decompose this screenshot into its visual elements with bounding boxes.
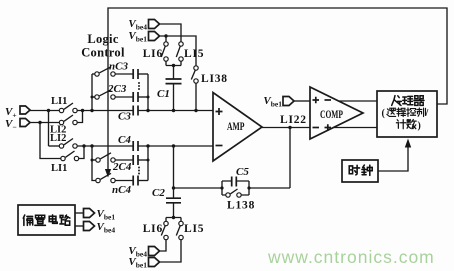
svg-text:L138: L138 (227, 200, 255, 212)
clock box (342, 160, 378, 182)
comparator COMP (310, 87, 363, 139)
wire nC3 row left (92, 73, 95, 75)
switch LI5 bottom (179, 221, 183, 225)
svg-text:C4: C4 (118, 134, 131, 146)
wire nC4 right (138, 180, 148, 182)
text bias box 电 (49, 215, 57, 223)
svg-text:LI5: LI5 (184, 223, 204, 235)
text processor 控 (407, 108, 416, 117)
text bias box 偏 (23, 215, 32, 225)
plus sign COMP bottom (325, 124, 332, 130)
bias circuit box (18, 205, 75, 235)
node C5 left (220, 186, 223, 189)
port V+ (20, 106, 30, 114)
wire LI6 LI5 join bar (166, 61, 181, 79)
wire LI1 bottom up to bus (79, 146, 84, 159)
svg-text:C3: C3 (118, 111, 131, 123)
switch LI5 top (179, 42, 183, 46)
wire 2C3 to cap (115, 96, 133, 98)
svg-text:2C3: 2C3 (107, 83, 127, 95)
wire V+ down to LI2 row (48, 111, 50, 147)
port Vbe4 bottom (149, 247, 160, 256)
text processor 制 (417, 108, 426, 117)
wire feedback left (174, 187, 291, 189)
wire feedback down (289, 128, 291, 189)
switch 2C4 (96, 158, 100, 162)
node bus 2C3 (91, 96, 94, 99)
node top bus (81, 109, 84, 112)
text processor 数 (407, 119, 416, 128)
plus sign COMP top (313, 97, 320, 103)
node V+ split (47, 109, 50, 112)
svg-text:LI22: LI22 (280, 114, 307, 126)
node bus right 2C4 (147, 159, 150, 162)
node C1 top (172, 64, 175, 67)
svg-text:LI2: LI2 (50, 133, 66, 144)
wire Vbe1 to LI38 (166, 36, 196, 66)
wire C4 bank left bus (92, 146, 96, 181)
port Vbe1 bias (84, 209, 95, 218)
switch LI38 (194, 66, 198, 70)
node C3 bank tap (90, 109, 93, 112)
wire C3 bank left bus (91, 74, 93, 111)
svg-text:C2: C2 (152, 187, 165, 199)
node LI22 (288, 126, 291, 129)
wire C1 to main (173, 84, 175, 111)
switch LI2 top (59, 120, 63, 124)
text clock 时 (349, 165, 359, 175)
wire C4 to AMP- (138, 145, 213, 147)
wire V+ to LI1 (30, 110, 59, 112)
wire COMP out bottom (334, 127, 378, 129)
svg-text:/: / (425, 108, 429, 119)
wire clock to processor (378, 146, 408, 171)
wire V- down to LI1 bottom row (40, 123, 61, 159)
node bus right 2C3 (147, 96, 150, 99)
switch 2C3 (95, 95, 99, 99)
svg-text:LI1: LI1 (51, 163, 67, 174)
node V- split (38, 121, 41, 124)
wire LI6 to Vbe4 (160, 240, 167, 251)
wire bias to Vbe4 (75, 225, 84, 227)
switch LI6 top (164, 42, 168, 46)
svg-text:C1: C1 (157, 88, 170, 100)
wire bias to Vbe1 (75, 212, 84, 214)
capacitor 2C4 (133, 155, 138, 165)
wire bottom bus to C4 (77, 145, 133, 147)
capacitor C1 (166, 79, 182, 84)
capacitor C2 (166, 198, 181, 203)
capacitor C3 (133, 106, 138, 116)
wire 2C4 right (138, 159, 148, 161)
wire nC3 right (138, 73, 148, 75)
text bias box 置 (35, 215, 46, 225)
plus sign AMP (216, 108, 223, 115)
port V- (20, 119, 30, 127)
svg-text:AMP: AMP (227, 119, 245, 133)
svg-text:Logic: Logic (87, 32, 119, 46)
minus sign COMP bottom (313, 127, 320, 129)
wire feedback loop from processor to logic control (108, 8, 447, 170)
node Vbe1 (164, 34, 167, 37)
svg-text:COMP: COMP (320, 107, 343, 121)
port Vbe1 comp (283, 97, 294, 106)
text bias box 路 (60, 215, 70, 225)
node bottom bus (82, 144, 85, 147)
svg-text:LI6: LI6 (143, 48, 163, 60)
node LI38 stem (194, 109, 197, 112)
switch LI6 bottom (164, 221, 168, 225)
text processor 辑 (397, 108, 406, 117)
wire C5 L138 frame (222, 181, 249, 195)
text processor 逻 (387, 108, 396, 116)
op-amp AMP (213, 93, 262, 162)
node bus 2C4 (91, 159, 94, 162)
capacitor C4 (133, 141, 138, 151)
ellipsis C4 bank (138, 167, 140, 169)
wire 2C4 to cap (115, 159, 133, 161)
node C4 bank tap (90, 144, 93, 147)
switch LI2 bottom (59, 144, 63, 148)
svg-text:2C4: 2C4 (112, 161, 132, 173)
node C5 right (247, 186, 250, 189)
arrowhead logic control down (105, 169, 111, 178)
svg-text:nC4: nC4 (112, 184, 131, 196)
text processor 处 (392, 96, 402, 106)
wire C4 bank right bus (147, 146, 149, 181)
svg-text:): ) (418, 121, 421, 132)
minus sign COMP top (325, 99, 332, 101)
port Vbe4 bias (84, 222, 95, 231)
wire C3 bank right bus (147, 74, 149, 111)
wire AMP output (262, 127, 310, 129)
port Vbe1 bottom (149, 258, 160, 267)
capacitor nC4 (133, 176, 138, 186)
text clock 钟 (362, 165, 372, 175)
wire 2C4 row left (92, 159, 96, 161)
port Vbe4 top (149, 20, 160, 29)
text processor 理 (403, 96, 413, 104)
node C2 branch (172, 144, 175, 147)
wire top bus to C3 (77, 110, 133, 112)
wire 2C3 row left (92, 96, 95, 98)
wire Vbe1 to LI6 (160, 36, 167, 42)
ellipsis C3 bank (138, 82, 140, 84)
wire V- to LI2 (30, 122, 59, 124)
svg-text:C5: C5 (236, 166, 249, 178)
svg-text:nC3: nC3 (109, 61, 128, 73)
switch nC4 (96, 178, 100, 182)
wire Vbe4 to LI5 (160, 24, 182, 42)
wire LI5 to Vbe1 (160, 240, 182, 262)
wire LI2 bottom row (49, 145, 60, 147)
switch nC3 (95, 72, 99, 76)
minus sign AMP (216, 145, 223, 147)
node C2 bottom bar (172, 216, 175, 219)
processor box (377, 91, 437, 137)
svg-text:LI6: LI6 (143, 223, 163, 235)
wire nC4 to cap (115, 180, 133, 182)
port Vbe1 top (149, 32, 160, 41)
wire 2C3 right (138, 96, 148, 98)
svg-text:LI5: LI5 (184, 48, 204, 60)
svg-text:LI38: LI38 (201, 73, 228, 85)
svg-text:Control: Control (81, 46, 125, 60)
arrowhead clock up (405, 139, 411, 148)
node C3 right bus (146, 109, 149, 112)
wire C2 stem (173, 146, 175, 218)
node C1 stem (172, 109, 175, 112)
capacitor 2C3 (133, 92, 138, 102)
wire Vbe1 to COMP (294, 100, 310, 102)
wire LI38 to main (195, 83, 197, 110)
capacitor nC3 (133, 69, 138, 79)
capacitor C5 (232, 177, 237, 187)
node C2 top (172, 186, 175, 189)
svg-text:www.cntronics.com: www.cntronics.com (267, 247, 435, 267)
wire bottom chopper bar (166, 218, 181, 222)
switch L138 (222, 194, 249, 196)
switch LI1 bottom (61, 156, 65, 160)
text processor 器 (414, 96, 424, 106)
node C4 right bus (146, 144, 149, 147)
wire C3 to AMP+ (138, 110, 213, 112)
wire nC3 to cap (115, 73, 133, 75)
svg-text:LI1: LI1 (51, 96, 67, 107)
wire LI2 top up to bus (77, 111, 82, 123)
wire COMP out top (339, 100, 378, 102)
text processor 计 (396, 120, 406, 129)
switch LI1 top (59, 108, 63, 112)
